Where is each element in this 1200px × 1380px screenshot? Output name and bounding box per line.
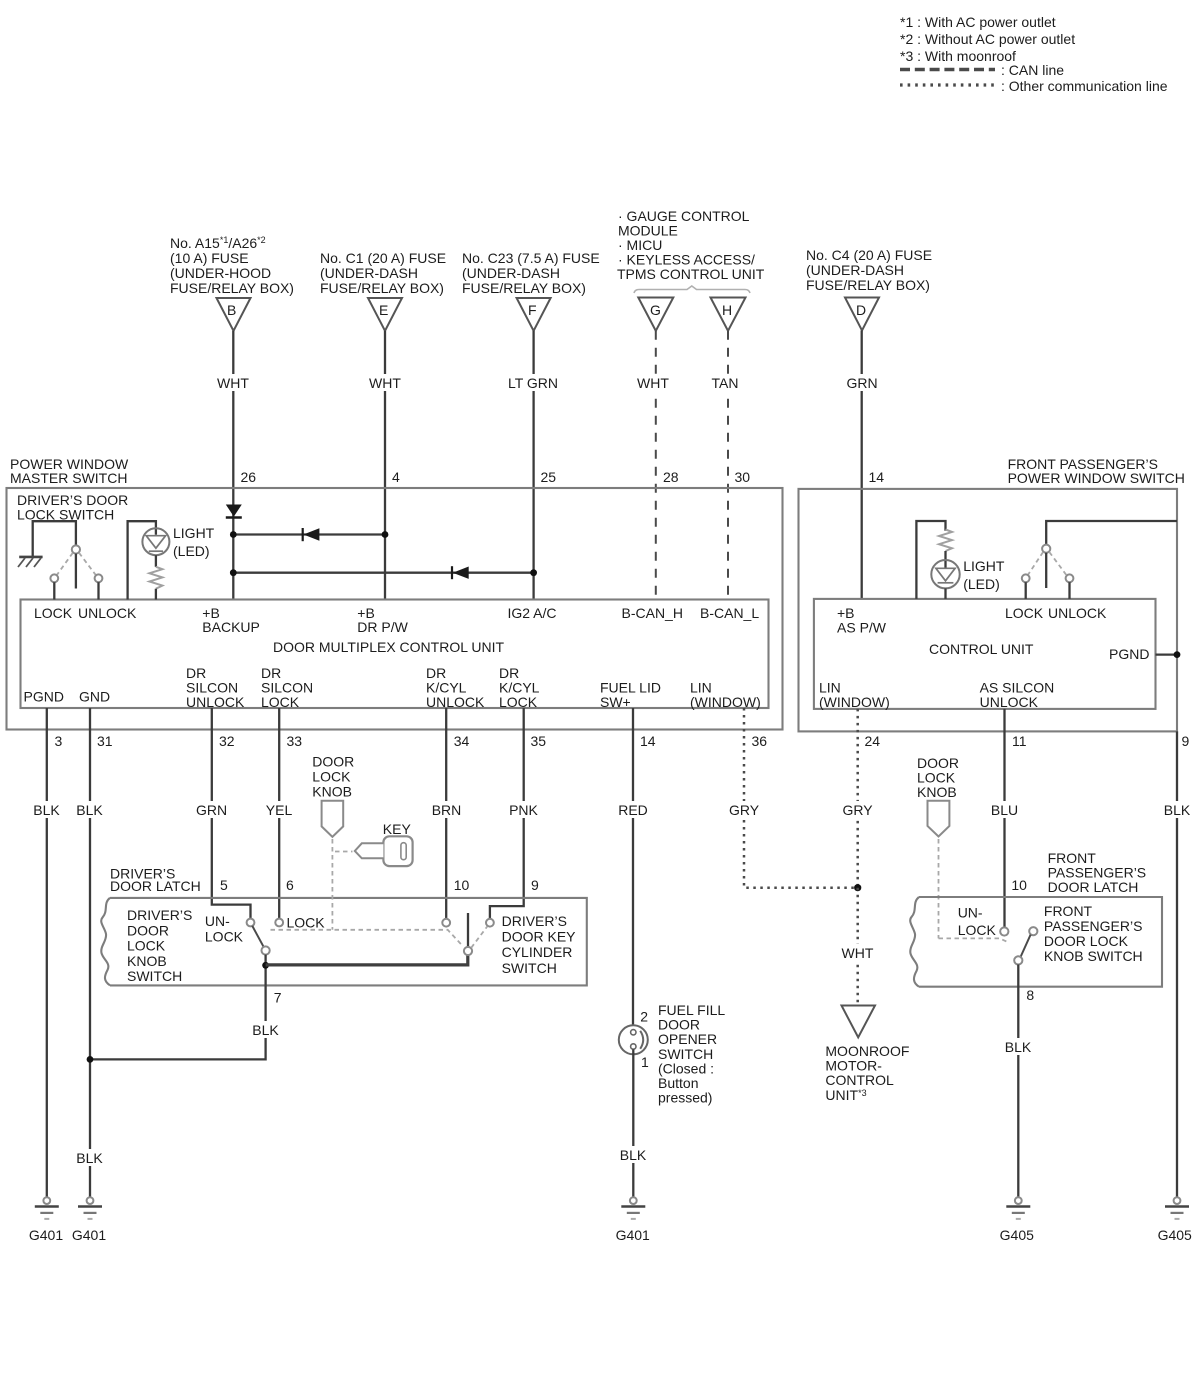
svg-text:BLK: BLK: [252, 1022, 279, 1038]
svg-text:3: 3: [55, 733, 63, 749]
svg-text:31: 31: [97, 733, 113, 749]
+B BACKUP terminal label: [202, 605, 260, 635]
svg-text:YEL: YEL: [266, 802, 293, 818]
driver's door lock switch bracket wire: [33, 521, 76, 556]
svg-text:G401: G401: [616, 1227, 650, 1243]
svg-text:14: 14: [869, 469, 885, 485]
latch pin 6: [286, 877, 294, 893]
svg-text:BLK: BLK: [1005, 1039, 1032, 1055]
svg-text:10: 10: [1011, 877, 1027, 893]
passenger knob switch contact pin10: [1000, 927, 1008, 935]
driver's door lock switch pivot: [72, 545, 80, 588]
svg-text:No. C4 (20 A) FUSE: No. C4 (20 A) FUSE: [806, 247, 932, 263]
power window master switch label: [10, 456, 129, 486]
LED wire bracket right: [916, 521, 945, 599]
svg-text:GRN: GRN: [846, 375, 877, 391]
knob switch contact pin5: [247, 919, 255, 927]
svg-text:D: D: [856, 302, 866, 318]
key symbol: [355, 836, 413, 866]
UNLOCK terminal label right: [1048, 605, 1107, 621]
svg-text:DOOR LATCH: DOOR LATCH: [1048, 879, 1139, 895]
svg-text:LIGHT: LIGHT: [963, 558, 1005, 574]
svg-text:33: 33: [287, 733, 303, 749]
latch pin 7: [274, 990, 282, 1006]
wire BLK pin 9 to G405: [1160, 731, 1194, 1197]
svg-text:(LED): (LED): [963, 576, 1000, 592]
B-CAN_H terminal label: [622, 605, 683, 621]
svg-text:SWITCH: SWITCH: [127, 968, 182, 984]
passenger lock switch pivot: [1042, 545, 1050, 588]
svg-text:10: 10: [454, 877, 470, 893]
door lock knob symbol left: [322, 801, 344, 837]
svg-text:9: 9: [1182, 733, 1190, 749]
wire BLK pin 3 to G401: [31, 708, 64, 1197]
svg-text:No. C23 (7.5 A) FUSE: No. C23 (7.5 A) FUSE: [462, 250, 600, 266]
knob linkage dashed right: [939, 839, 1007, 942]
svg-text:(UNDER-DASH: (UNDER-DASH: [806, 262, 904, 278]
DR SILCON UNLOCK terminal label: [186, 665, 245, 710]
diode D2 left-pointing on bus y534: [303, 528, 320, 541]
fuel fill door opener switch label: [658, 1002, 725, 1106]
svg-text:DOOR: DOOR: [127, 922, 169, 938]
svg-text:G: G: [650, 302, 661, 318]
svg-text:KNOB: KNOB: [127, 953, 167, 969]
pin 33: [287, 733, 303, 749]
latch pin 10 right: [1011, 877, 1027, 893]
svg-text:32: 32: [219, 733, 235, 749]
svg-text:DOOR MULTIPLEX CONTROL UNIT: DOOR MULTIPLEX CONTROL UNIT: [273, 639, 504, 655]
driver's door key cylinder switch label: [502, 913, 577, 976]
svg-text:E: E: [379, 302, 388, 318]
wire LT GRN fuse F to pin 25: [505, 331, 562, 600]
moonroof motor control unit label: [825, 1043, 909, 1103]
svg-text:*1 : With AC power outlet: *1 : With AC power outlet: [900, 14, 1056, 30]
svg-text:7: 7: [274, 990, 282, 1006]
B-CAN_L terminal label: [700, 605, 759, 621]
ground G401 pin3: [29, 1197, 63, 1243]
DR K/CYL UNLOCK terminal label: [426, 665, 485, 710]
LED light circle left: [142, 528, 169, 555]
svg-text:FUSE/RELAY BOX): FUSE/RELAY BOX): [320, 280, 444, 296]
fuel fill door opener switch pin 2: [640, 1009, 648, 1025]
front passenger's door lock knob switch label: [1044, 903, 1143, 964]
svg-text:GRN: GRN: [196, 802, 227, 818]
LOCK label latch: [287, 915, 326, 931]
pin 28: [663, 469, 679, 485]
wire GRY dotted pin 24: [839, 709, 876, 888]
passenger lock switch bracket wire: [1046, 521, 1177, 545]
svg-text:No. C1 (20 A) FUSE: No. C1 (20 A) FUSE: [320, 250, 446, 266]
pin 14: [869, 469, 885, 485]
gauge control module label: [617, 208, 765, 282]
wire WHT fuse E to pin 4: [365, 331, 406, 600]
svg-text:: Other communication line: : Other communication line: [1001, 78, 1168, 94]
DR SILCON LOCK terminal label: [261, 665, 313, 710]
svg-text:BRN: BRN: [432, 802, 462, 818]
svg-text:GRY: GRY: [842, 802, 873, 818]
svg-text:WHT: WHT: [369, 375, 401, 391]
wire TAN B-CAN_L dashed H to pin 30: [705, 331, 745, 600]
svg-text:8: 8: [1026, 987, 1034, 1003]
svg-text:CONTROL UNIT: CONTROL UNIT: [929, 641, 1034, 657]
connector G: [638, 298, 673, 331]
svg-text:UN-: UN-: [205, 913, 230, 929]
svg-text:UNLOCK: UNLOCK: [78, 605, 137, 621]
svg-text:AS P/W: AS P/W: [837, 620, 887, 636]
key label: [383, 821, 412, 837]
LIGHT (LED) label left: [173, 525, 215, 559]
fuse connector E: [368, 298, 402, 331]
PGND terminal label right: [1109, 646, 1149, 662]
svg-text:FRONT: FRONT: [1048, 850, 1097, 866]
svg-text:LT GRN: LT GRN: [508, 375, 558, 391]
IG2 A/C terminal label: [508, 605, 557, 621]
svg-text:F: F: [528, 302, 537, 318]
svg-text:DOOR LATCH: DOOR LATCH: [110, 878, 201, 894]
svg-text:SW+: SW+: [600, 694, 631, 710]
brace under gauge module label: [634, 286, 750, 293]
svg-text:SWITCH: SWITCH: [502, 960, 557, 976]
fuse F label: [462, 250, 600, 296]
svg-text:(WINDOW): (WINDOW): [690, 694, 761, 710]
junction node pin26/bus534: [230, 531, 237, 538]
svg-text:CONTROL: CONTROL: [825, 1072, 894, 1088]
knob linkage dashed vertical left: [331, 839, 333, 930]
driver's door lock switch linkage dashes: [57, 553, 96, 575]
svg-text:26: 26: [241, 469, 257, 485]
svg-text:DRIVER’S: DRIVER’S: [127, 907, 192, 923]
wire YEL pin 33 to latch pin 6: [262, 708, 297, 919]
driver's door lock switch UNLOCK contact: [95, 574, 103, 599]
svg-text:SWITCH: SWITCH: [658, 1046, 713, 1062]
wire BLK pin 8 to G405: [1001, 965, 1036, 1198]
DOOR MULTIPLEX CONTROL UNIT label: [273, 639, 504, 655]
svg-text:28: 28: [663, 469, 679, 485]
LOCK terminal label right: [1005, 605, 1044, 621]
svg-text:: CAN line: : CAN line: [1001, 62, 1064, 78]
fuse connector B: [217, 298, 251, 331]
svg-text:14: 14: [640, 733, 656, 749]
svg-text:G401: G401: [72, 1227, 106, 1243]
svg-text:UNLOCK: UNLOCK: [980, 694, 1039, 710]
passenger knob switch pivot: [1014, 956, 1022, 964]
LED wire bracket left: [128, 521, 156, 599]
svg-text:PASSENGER’S: PASSENGER’S: [1048, 865, 1147, 881]
svg-text:UNLOCK: UNLOCK: [186, 694, 245, 710]
LED resistor left: [149, 555, 162, 599]
LIN (WINDOW) terminal label right: [819, 680, 890, 711]
svg-text:9: 9: [531, 877, 539, 893]
+B DR P/W terminal label: [357, 605, 408, 635]
svg-text:(UNDER-HOOD: (UNDER-HOOD: [170, 265, 271, 281]
svg-text:LOCK: LOCK: [34, 605, 73, 621]
fuse E label: [320, 250, 446, 296]
AS SILCON UNLOCK terminal label: [980, 680, 1055, 711]
legend other communication line sample: [900, 78, 1168, 94]
junction node pin4/bus534: [382, 531, 389, 538]
front passenger's door latch label: [1048, 850, 1147, 895]
svg-text:G405: G405: [1000, 1227, 1034, 1243]
svg-text:RED: RED: [618, 802, 648, 818]
svg-text:(10 A) FUSE: (10 A) FUSE: [170, 250, 249, 266]
svg-text:LOCK: LOCK: [205, 929, 244, 945]
wire GRN fuse D to pin 14: [842, 331, 882, 599]
svg-text:6: 6: [286, 877, 294, 893]
svg-text:35: 35: [531, 733, 547, 749]
svg-text:BACKUP: BACKUP: [202, 619, 260, 635]
svg-text:POWER WINDOW SWITCH: POWER WINDOW SWITCH: [1008, 470, 1185, 486]
LED light circle right: [931, 560, 959, 599]
driver's door latch box: [101, 898, 587, 986]
svg-text:MOONROOF: MOONROOF: [825, 1043, 909, 1059]
svg-text:GND: GND: [79, 689, 110, 705]
driver's door lock switch LOCK contact: [50, 574, 58, 599]
passenger LOCK contact: [1022, 574, 1030, 599]
key cylinder contact pin9: [486, 919, 494, 927]
door lock knob symbol right: [928, 801, 950, 837]
pin 4: [392, 469, 400, 485]
svg-text:B-CAN_H: B-CAN_H: [622, 605, 683, 621]
pin 24: [865, 733, 881, 749]
PGND terminal label: [24, 689, 64, 705]
svg-text:No. A15*1/A26*2: No. A15*1/A26*2: [170, 235, 266, 251]
pin 32: [219, 733, 235, 749]
wire bus y572: [233, 572, 533, 574]
key cylinder pivot: [464, 947, 472, 955]
svg-text:KNOB: KNOB: [312, 784, 352, 800]
svg-text:24: 24: [865, 733, 881, 749]
wire BLK fuel switch to G401: [616, 1049, 651, 1197]
svg-text:(UNDER-DASH: (UNDER-DASH: [320, 265, 418, 281]
pin 30: [735, 469, 751, 485]
door multiplex control unit inner box: [21, 600, 769, 709]
connector H: [711, 298, 746, 331]
UN-LOCK label right: [958, 905, 997, 938]
svg-text:LOCK: LOCK: [499, 694, 538, 710]
wire GRN pin 32 to latch pin 5: [194, 708, 251, 919]
svg-text:UN-: UN-: [958, 905, 983, 921]
GND terminal label: [79, 689, 110, 705]
junction node knob pivot: [262, 955, 269, 986]
svg-text:B: B: [227, 302, 236, 318]
svg-text:LIGHT: LIGHT: [173, 525, 215, 541]
svg-text:H: H: [722, 302, 732, 318]
wire WHT fuse B to pin 26: [213, 331, 254, 600]
chassis ground symbol: [18, 557, 43, 567]
svg-text:(Closed :: (Closed :: [658, 1060, 714, 1076]
driver's door lock switch label: [17, 492, 128, 523]
svg-text:(LED): (LED): [173, 543, 210, 559]
knob switch pivot: [262, 946, 270, 954]
passenger knob switch blade: [1021, 935, 1031, 957]
front passenger's power window switch outer box: [799, 489, 1178, 732]
svg-text:DR P/W: DR P/W: [357, 619, 408, 635]
wire BLU pin 11 to passenger latch: [987, 709, 1022, 928]
wire WHT B-CAN_H dashed G to pin 28: [633, 331, 674, 600]
door lock knob label right: [917, 755, 959, 800]
wire RED pin 14 to fuel switch: [616, 708, 651, 1029]
svg-text:BLK: BLK: [76, 1150, 103, 1166]
CONTROL UNIT label: [929, 641, 1034, 657]
svg-text:25: 25: [541, 469, 557, 485]
driver's door latch label: [110, 866, 201, 895]
power window master switch outer box: [7, 488, 783, 730]
svg-text:BLU: BLU: [991, 802, 1018, 818]
svg-text:PGND: PGND: [24, 689, 64, 705]
ground G405 pin9: [1158, 1197, 1192, 1243]
fuse connector F: [517, 298, 551, 331]
legend note *1: [900, 14, 1056, 30]
svg-text:UNLOCK: UNLOCK: [426, 694, 485, 710]
fuse B label: [170, 235, 294, 296]
ground G401 fuel switch: [616, 1197, 650, 1243]
UN-LOCK label: [205, 913, 244, 945]
svg-text:FUSE/RELAY BOX): FUSE/RELAY BOX): [170, 280, 294, 296]
svg-text:KNOB SWITCH: KNOB SWITCH: [1044, 948, 1143, 964]
svg-text:PGND: PGND: [1109, 646, 1149, 662]
svg-text:11: 11: [1012, 733, 1027, 749]
ground G405 pin8: [1000, 1197, 1034, 1243]
passenger UNLOCK contact: [1066, 574, 1074, 599]
control unit inner box: [814, 599, 1156, 709]
knob switch contact pin6: [275, 919, 283, 927]
front passenger's door latch box: [910, 897, 1162, 987]
fuse connector D: [845, 298, 879, 331]
svg-text:(WINDOW): (WINDOW): [819, 694, 890, 710]
diode D3 left-pointing on bus y572: [452, 566, 469, 579]
key linkage dash: [335, 851, 353, 853]
svg-text:pressed): pressed): [658, 1090, 712, 1106]
svg-text:LOCK: LOCK: [287, 915, 326, 931]
fuel fill door opener switch: [619, 1025, 648, 1054]
svg-text:LOCK: LOCK: [261, 694, 300, 710]
wire PNK pin 35 to latch pin 9: [490, 708, 542, 919]
driver's door lock knob switch label: [127, 907, 192, 984]
svg-text:MASTER SWITCH: MASTER SWITCH: [10, 470, 127, 486]
knob switch blade: [252, 926, 263, 947]
svg-text:G401: G401: [29, 1227, 63, 1243]
door lock knob label left: [312, 754, 354, 800]
key cylinder contact pin10: [442, 919, 450, 927]
svg-text:LOCK: LOCK: [127, 938, 166, 954]
pin 25: [541, 469, 557, 485]
mechanical bar knob to key cylinder: [266, 955, 468, 965]
wire BRN pin 34 to latch pin 10: [429, 708, 465, 919]
svg-text:PNK: PNK: [509, 802, 538, 818]
latch pin 8: [1026, 987, 1034, 1003]
svg-text:WHT: WHT: [842, 945, 874, 961]
svg-text:*3 : With moonroof: *3 : With moonroof: [900, 48, 1016, 64]
svg-text:1: 1: [641, 1054, 649, 1070]
svg-text:OPENER: OPENER: [658, 1031, 717, 1047]
pin 26: [241, 469, 257, 485]
LOCK terminal label: [34, 605, 73, 621]
svg-text:36: 36: [752, 733, 768, 749]
wire BLK pin 31 to G401: [74, 708, 107, 1197]
FUEL LID SW+ terminal label: [600, 680, 661, 711]
svg-text:FUSE/RELAY BOX): FUSE/RELAY BOX): [462, 280, 586, 296]
svg-text:IG2 A/C: IG2 A/C: [508, 605, 557, 621]
pin 31: [97, 733, 113, 749]
svg-text:WHT: WHT: [637, 375, 669, 391]
svg-text:UNLOCK: UNLOCK: [1048, 605, 1107, 621]
pin 11: [1012, 733, 1027, 749]
svg-text:30: 30: [735, 469, 751, 485]
knob-keycylinder linkage dashed horizontal: [271, 930, 464, 947]
svg-text:FRONT: FRONT: [1044, 903, 1093, 919]
wire bus y534: [233, 533, 385, 535]
legend note *3: [900, 48, 1016, 64]
svg-text:LOCK: LOCK: [1005, 605, 1044, 621]
svg-text:B-CAN_L: B-CAN_L: [700, 605, 759, 621]
svg-text:MOTOR-: MOTOR-: [825, 1058, 882, 1074]
legend note *2: [900, 31, 1075, 47]
svg-text:BLK: BLK: [33, 802, 60, 818]
svg-text:CYLINDER: CYLINDER: [502, 944, 573, 960]
wire BLK pin 7 to GND junction: [90, 985, 282, 1059]
junction node GND/pin7: [87, 1056, 94, 1063]
passenger knob switch contact right: [1029, 927, 1037, 935]
DR K/CYL LOCK terminal label: [499, 665, 540, 710]
svg-text:LOCK: LOCK: [958, 922, 997, 938]
LIN (WINDOW) terminal label left: [690, 680, 761, 711]
pin 34: [454, 733, 470, 749]
junction node GRY dotted: [854, 884, 861, 891]
fuse D label: [806, 247, 932, 293]
wire WHT dotted to moonroof: [838, 888, 878, 1005]
junction node pin26/bus572: [230, 569, 237, 576]
svg-text:Button: Button: [658, 1075, 698, 1091]
svg-text:LOCK: LOCK: [312, 769, 351, 785]
svg-text:2: 2: [640, 1009, 648, 1025]
junction node pin25/bus572: [530, 569, 537, 576]
pin 3: [55, 733, 63, 749]
fuel fill door opener switch pin 1: [641, 1054, 649, 1070]
svg-text:TAN: TAN: [712, 375, 739, 391]
svg-text:PASSENGER’S: PASSENGER’S: [1044, 918, 1143, 934]
svg-text:WHT: WHT: [217, 375, 249, 391]
svg-text:BLK: BLK: [620, 1147, 647, 1163]
PGND wire to box edge: [1156, 651, 1181, 658]
pin 9 passenger: [1182, 733, 1190, 749]
UNLOCK terminal label: [78, 605, 137, 621]
svg-text:4: 4: [392, 469, 400, 485]
passenger lock switch linkage dashes: [1028, 552, 1066, 575]
ground G401 pin31: [72, 1197, 106, 1243]
svg-text:FUSE/RELAY BOX): FUSE/RELAY BOX): [806, 277, 930, 293]
svg-text:BLK: BLK: [76, 802, 103, 818]
svg-text:DOOR: DOOR: [658, 1017, 700, 1033]
svg-text:BLK: BLK: [1164, 802, 1191, 818]
key cylinder actuator: [467, 913, 469, 947]
svg-text:KNOB: KNOB: [917, 784, 957, 800]
latch pin 5: [220, 877, 228, 893]
latch pin 10: [454, 877, 470, 893]
svg-text:FUEL FILL: FUEL FILL: [658, 1002, 725, 1018]
LED resistor right: [939, 530, 952, 569]
wire GRY dotted pin 36: [726, 708, 858, 888]
LIGHT (LED) label right: [963, 558, 1005, 592]
svg-text:*2 : Without AC power outlet: *2 : Without AC power outlet: [900, 31, 1075, 47]
svg-text:5: 5: [220, 877, 228, 893]
+B AS P/W terminal label: [837, 605, 887, 636]
svg-text:(UNDER-DASH: (UNDER-DASH: [462, 265, 560, 281]
svg-text:TPMS CONTROL UNIT: TPMS CONTROL UNIT: [617, 266, 765, 282]
svg-text:DOOR KEY: DOOR KEY: [502, 929, 577, 945]
pin 14 fuel lid: [640, 733, 656, 749]
latch pin 9: [531, 877, 539, 893]
front passenger's power window switch label: [1008, 456, 1185, 486]
